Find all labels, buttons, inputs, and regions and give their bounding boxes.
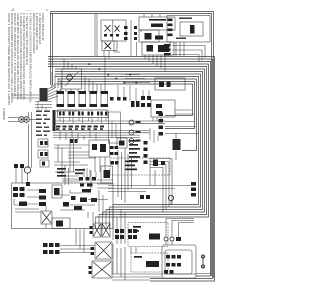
- main harness bus (top): [48, 57, 215, 282]
- buzzer circle: [24, 167, 30, 173]
- top-left feed wires: [35, 102, 52, 111]
- cluster interconnect wires: [55, 168, 108, 215]
- left component column: [38, 139, 49, 167]
- relay box K1: [139, 30, 159, 42]
- infinite switch cluster: [63, 177, 97, 210]
- relay lower parts: [134, 256, 159, 267]
- console small box top: [101, 166, 113, 183]
- svg-text:7. SEE TECH SHEET FOR SERVICE: 7. SEE TECH SHEET FOR SERVICE INFO: [25, 13, 29, 65]
- left label rows: [36, 111, 50, 136]
- assembly contact row 1: [166, 255, 181, 259]
- lamp L1: [105, 25, 111, 32]
- relay small box K3: [117, 138, 127, 148]
- left harness knot: [40, 88, 48, 101]
- sensor circle 2: [129, 130, 134, 135]
- svg-text:-2: -2: [11, 8, 14, 12]
- sensor circle 3: [129, 139, 134, 144]
- convection X: [96, 243, 111, 258]
- center bus: [53, 121, 165, 137]
- relay contacts K2: [147, 45, 170, 52]
- clock label: [149, 19, 166, 27]
- thermal switch pair A: [115, 229, 124, 239]
- probe wires: [8, 112, 38, 168]
- assembly contact row 2: [166, 263, 181, 267]
- part number label (left edge): [2, 108, 6, 120]
- nested corner wires cluster: [96, 205, 114, 229]
- probe jack circle: [129, 120, 134, 125]
- indicator lamp box U1: [101, 20, 126, 41]
- buzzer lead: [16, 168, 28, 183]
- labels above cluster: [57, 168, 85, 177]
- element terminals: [57, 91, 109, 107]
- surface element row: [57, 93, 108, 106]
- connector outline J1: [58, 110, 109, 118]
- bottom feeder verticals: [113, 210, 136, 281]
- top switch row: [164, 237, 174, 241]
- switch drops: [166, 219, 194, 246]
- latch motor M1: [190, 25, 195, 34]
- lock switch wires: [60, 246, 95, 253]
- oven lamp X: [93, 262, 111, 277]
- label column mid-right: [129, 140, 140, 162]
- board dots: [92, 144, 106, 152]
- bottom return wires: [112, 274, 196, 280]
- console chain part: [39, 189, 46, 206]
- oven control board box: [89, 140, 110, 157]
- terminal pair TP2: [134, 26, 137, 40]
- door switch wires: [170, 42, 205, 62]
- dashed bake box: [110, 158, 170, 175]
- probe contacts: [21, 119, 28, 121]
- connector drop wires: [60, 118, 116, 141]
- relay pair mid: [140, 195, 150, 199]
- relay coil K1: [145, 33, 164, 40]
- mid vertical drops: [118, 85, 161, 143]
- door switch stack: [164, 44, 171, 56]
- bus junction dots: [89, 63, 138, 83]
- limit switch vertical: [201, 255, 204, 268]
- mid horizontal runs: [108, 148, 196, 203]
- selector knob: [67, 75, 73, 81]
- svg-text:=: =: [46, 9, 48, 13]
- door switch contacts: [159, 82, 171, 88]
- notes text block: [7, 13, 45, 106]
- relay feed: [175, 133, 177, 160]
- bake element pair: [70, 139, 78, 143]
- lamp box U2: [102, 41, 117, 51]
- oven lamp motor: [92, 261, 112, 278]
- dot column far right: [159, 113, 164, 136]
- sensor dots: [136, 121, 141, 142]
- lower-left switch pair: [14, 164, 24, 168]
- border frame (L1 supply run): [51, 12, 214, 279]
- label strip above center bus: [56, 126, 104, 130]
- thermostat terminals: [141, 96, 151, 107]
- pilot lead: [170, 201, 172, 205]
- left harness fan: [12, 72, 62, 100]
- svg-text:LIT8101P: LIT8101P: [2, 108, 6, 120]
- console sub box: [52, 185, 70, 229]
- small parts mid right: [110, 97, 140, 107]
- probe receptacle: [19, 117, 30, 123]
- motor terminals: [89, 226, 95, 274]
- nested corner wires mid-right: [150, 159, 172, 213]
- bottom right assembly outer box: [162, 245, 196, 278]
- svg-text:- - - -: - - - -: [25, 8, 32, 12]
- latch assembly box: [167, 16, 210, 43]
- bake parts: [111, 160, 166, 171]
- latch stack terminals: [168, 19, 173, 37]
- lamp L3: [105, 43, 112, 50]
- junction bar: [53, 110, 56, 131]
- fan X marks: [94, 224, 110, 236]
- sheet marks: [11, 8, 48, 13]
- left component dots: [40, 141, 48, 166]
- left board feeds: [54, 138, 105, 176]
- oven thermostat box: [151, 100, 175, 117]
- console wires: [14, 190, 46, 228]
- clock box A1: [139, 17, 175, 30]
- relay upper parts: [133, 226, 160, 240]
- terminal pair TP1: [124, 26, 128, 40]
- small box dark: [104, 170, 111, 178]
- wire drops clock area: [95, 14, 165, 71]
- dashed relay box lower: [131, 253, 168, 272]
- assembly contact row 3: [164, 270, 174, 274]
- thermostat parts: [156, 104, 162, 114]
- cluster wires: [54, 162, 113, 253]
- oven jack box: [109, 112, 121, 143]
- thermostat side wires: [175, 110, 194, 114]
- sub box dark: [54, 188, 63, 227]
- lamp L2: [115, 26, 120, 32]
- fan motor pair: [93, 223, 110, 237]
- convection motor: [95, 242, 112, 259]
- lamp terminals: [104, 34, 119, 37]
- relay box K2: [142, 42, 174, 55]
- dashed relay box upper: [128, 223, 168, 247]
- svg-text:CODES: BK BLACK W: CODES: BK BLACK W: [41, 13, 45, 41]
- door switch box (on bus): [155, 78, 185, 90]
- pilot circle: [168, 195, 173, 200]
- latch labels: [176, 18, 192, 39]
- top switch dark: [176, 237, 181, 241]
- selector feeds: [60, 57, 150, 93]
- console fan X-box: [41, 211, 52, 224]
- console switch cluster A: [13, 182, 30, 206]
- bus taps right: [165, 122, 199, 134]
- lock switch cluster: [43, 243, 60, 254]
- svg-text:8. CHECK ALL CONNECTIONS BEFOR: 8. CHECK ALL CONNECTIONS BEFORE REPLACIN…: [29, 13, 33, 103]
- K3 dots: [119, 141, 125, 146]
- diode stack right: [191, 182, 196, 197]
- selector switch S1: [62, 69, 82, 89]
- dot column mid-right: [144, 141, 148, 164]
- small parts upper band: [110, 146, 118, 155]
- label row under elements: [56, 110, 81, 113]
- thermal switch pair B: [128, 229, 137, 239]
- big lower-left box (console): [12, 183, 114, 229]
- console fan X: [42, 212, 51, 223]
- bake relay block: [173, 139, 181, 150]
- connector pair row J1: [59, 112, 107, 116]
